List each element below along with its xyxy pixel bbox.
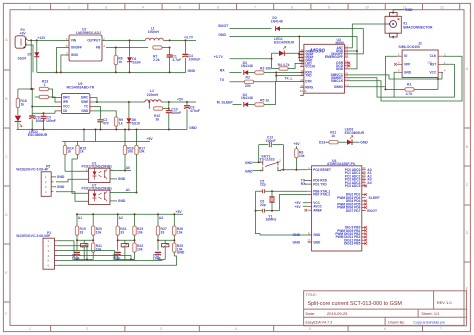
optocoupler U7 PC817 bottom [82, 184, 112, 205]
connector P4 [15, 28, 28, 48]
resistor R24 33 [116, 226, 119, 235]
svg-text:BOOT: BOOT [218, 24, 229, 28]
svg-text:VCCIO: VCCIO [305, 65, 316, 69]
mcu right pin stubs [362, 170, 366, 244]
svg-text:TXD: TXD [305, 74, 312, 78]
no-connect X DIG4..DIG6 [364, 200, 367, 203]
svg-text:GND: GND [189, 126, 197, 130]
wire SIMIO row [348, 56, 397, 89]
wire opto1 emitter gnd [110, 178, 117, 180]
svg-text:12: 12 [440, 5, 444, 9]
svg-text:M590: M590 [336, 41, 345, 45]
wire opto2 anode [72, 159, 89, 193]
svg-text:GND: GND [405, 8, 413, 12]
svg-text:+3.7V: +3.7V [214, 55, 224, 59]
no-connect X DIG2 [364, 193, 367, 196]
wire U2 ONOFF to gnd [57, 48, 70, 73]
capacitor C9 470uF [184, 101, 200, 130]
svg-text:3: 3 [105, 5, 107, 9]
svg-text:TS-1102S: TS-1102S [260, 158, 276, 162]
svg-text:470: 470 [103, 122, 109, 126]
svg-text:P4: P4 [345, 54, 349, 58]
svg-text:SIMIO: SIMIO [334, 85, 344, 89]
svg-text:1k: 1k [80, 150, 84, 154]
svg-text:GND: GND [71, 53, 79, 57]
svg-text:TITLE:: TITLE: [306, 293, 317, 297]
svg-text:GND: GND [293, 233, 301, 237]
M590 right pin names [325, 44, 350, 89]
svg-text:GND: GND [313, 233, 321, 237]
svg-text:SIMLOCK400: SIMLOCK400 [399, 45, 420, 49]
diode D3 1N4148 [230, 61, 255, 75]
wire SIMRST loop [348, 64, 454, 97]
crystal Y1 16MHz [266, 191, 277, 222]
svg-text:MC34063ABD-TR: MC34063ABD-TR [67, 86, 95, 90]
svg-text:ESCA005UR: ESCA005UR [274, 40, 295, 44]
node junction dots on +12V [30, 39, 32, 41]
svg-text:IPE: IPE [63, 100, 68, 104]
capacitor C11 10uF [115, 252, 121, 255]
svg-text:100nF: 100nF [171, 111, 181, 115]
resistor R26 10k [173, 226, 176, 235]
svg-text:SWC: SWC [81, 96, 89, 100]
resistor R21 10k [92, 243, 95, 252]
frame ruler numbers bottom [29, 327, 442, 331]
wire GND line to M590 [230, 37, 358, 69]
svg-text:P5: P5 [345, 65, 349, 69]
svg-text:GND: GND [313, 240, 321, 244]
wire M590 bottom gnd stub [300, 93, 303, 95]
svg-text:10uF: 10uF [72, 257, 80, 261]
svg-text:+5V: +5V [294, 142, 301, 146]
trimmer RV3 [162, 244, 169, 247]
svg-text:5: 5 [309, 327, 311, 331]
svg-text:TX_L: TX_L [284, 77, 292, 81]
wire VCC feed [31, 97, 33, 113]
svg-text:DRC: DRC [63, 96, 71, 100]
no-connect X ADC5 [364, 185, 367, 188]
svg-text:SS16: SS16 [132, 121, 140, 125]
resistor R10 3k feedback [148, 101, 169, 121]
svg-text:GND: GND [118, 199, 126, 203]
svg-text:5: 5 [179, 5, 181, 9]
svg-text:1N4148: 1N4148 [241, 96, 253, 100]
svg-text:WJ2EDGVC-5.08-4P: WJ2EDGVC-5.08-4P [16, 168, 49, 172]
svg-text:DIG7 PD7: DIG7 PD7 [346, 209, 361, 213]
wire U2 OUTPUT [102, 39, 145, 41]
svg-text:REV 1.0: REV 1.0 [437, 300, 453, 305]
frame ruler letters left [5, 38, 8, 316]
led LED3 with R11 [319, 128, 368, 145]
svg-text:100nF: 100nF [266, 139, 276, 143]
svg-text:PC6 RESET: PC6 RESET [313, 168, 331, 172]
wire sim gnd down [394, 72, 397, 97]
trimmer RV2 [121, 244, 128, 247]
svg-text:10k: 10k [299, 154, 305, 158]
svg-text:+5V: +5V [295, 205, 302, 209]
button KEY1 [253, 154, 281, 172]
wire opto2 cathode from P5 [56, 192, 89, 202]
mcu left pin names [308, 166, 331, 244]
no-connect X PB pins [364, 226, 367, 229]
wire XTAL2 riser [279, 195, 307, 211]
frame ruler ticks top [51, 3, 460, 9]
svg-text:RX: RX [220, 69, 225, 73]
svg-text:2: 2 [68, 5, 70, 9]
svg-text:PC5 ADC5: PC5 ADC5 [345, 184, 361, 188]
resistor R13 [18, 80, 49, 91]
svg-text:+5V: +5V [147, 137, 154, 141]
resistor R23 10k [133, 226, 136, 235]
mcu U4 ATMEGA328P-PU [312, 159, 362, 251]
network ch2 [113, 213, 144, 260]
svg-text:FB: FB [96, 46, 101, 50]
svg-text:8: 8 [291, 5, 293, 9]
resistor R19 33 [75, 226, 78, 235]
svg-text:GND: GND [336, 67, 344, 71]
svg-text:IO: IO [404, 54, 408, 58]
svg-text:220mH: 220mH [147, 93, 159, 97]
svg-text:ATMEGA328P-PU: ATMEGA328P-PU [327, 162, 356, 166]
svg-text:1: 1 [29, 5, 31, 9]
resistor R14 1k [63, 142, 73, 172]
resistor R2 200 [230, 73, 304, 88]
wire +12V feed down to R13 [30, 40, 32, 89]
wire SIMCLK loop [348, 56, 462, 101]
wire sma gnd [393, 10, 404, 13]
wire U2 FB [106, 47, 148, 49]
svg-text:4: 4 [235, 327, 237, 331]
resistor R5 1k [255, 82, 304, 107]
svg-text:10k: 10k [137, 230, 143, 234]
svg-text:3k: 3k [156, 117, 160, 121]
svg-text:1N4148: 1N4148 [271, 19, 283, 23]
capacitor C6 22p on XTAL2 [255, 200, 280, 213]
svg-text:GND: GND [245, 161, 253, 165]
svg-text:M_SLEEP: M_SLEEP [217, 101, 234, 105]
svg-text:4.7k: 4.7k [406, 92, 413, 96]
resistor R17 [32, 89, 48, 99]
M590 left pin names [300, 48, 316, 93]
svg-text:1k: 1k [119, 122, 123, 126]
svg-text:2.2k: 2.2k [153, 58, 160, 62]
svg-text:34-40: 34-40 [300, 89, 307, 93]
frame ruler numbers top [29, 5, 444, 9]
no-connect X VPP [394, 63, 397, 66]
svg-text:1k: 1k [266, 98, 270, 102]
resistor R15 1k [76, 142, 86, 160]
svg-text:A1: A1 [126, 188, 130, 192]
svg-text:A4: A4 [367, 181, 371, 185]
resistor R4 4.7k [272, 63, 304, 70]
inductor L2 220mH [145, 89, 161, 102]
reset wire [281, 169, 308, 171]
svg-text:EasyEDA V4.7.3: EasyEDA V4.7.3 [306, 320, 333, 324]
wire U2 GND to gnd [61, 55, 69, 72]
svg-text:7: 7 [254, 5, 256, 9]
wire opto1 anode [65, 170, 89, 172]
svg-text:WJ2EDGVC-5.08-06P: WJ2EDGVC-5.08-06P [16, 234, 51, 238]
svg-text:10uF: 10uF [153, 257, 161, 261]
svg-text:Copy.arduinolab.pw: Copy.arduinolab.pw [413, 320, 445, 324]
M590 left pin stubs [300, 52, 304, 88]
wire opto2 collector to A1 [110, 192, 131, 194]
svg-text:+3.7V: +3.7V [184, 35, 194, 39]
svg-text:RING: RING [305, 85, 313, 89]
resistor R1 4.7k [385, 78, 439, 96]
wire R17 to IPE [48, 97, 57, 102]
svg-text:SIMCLK: SIMCLK [331, 79, 344, 83]
svg-text:R1: R1 [407, 83, 411, 87]
wire L1 to output node [163, 39, 196, 41]
resistor R18 1k [16, 89, 27, 115]
svg-text:3: 3 [160, 327, 162, 331]
svg-text:22p: 22p [260, 203, 266, 207]
wire PD0 RX line [305, 180, 308, 182]
sma connector X1 [385, 12, 433, 38]
svg-text:100mH: 100mH [148, 30, 160, 34]
svg-text:2019-09-25: 2019-09-25 [327, 311, 348, 316]
network ch3 [153, 213, 185, 260]
svg-text:VPP: VPP [404, 62, 411, 66]
svg-text:6: 6 [384, 327, 386, 331]
resistor R27 33 [156, 226, 159, 235]
svg-text:PB7 XTAL2: PB7 XTAL2 [313, 193, 330, 197]
capacitor C7 10uF [74, 252, 80, 255]
wire gnd branch to left gnd pin [299, 37, 304, 52]
svg-text:GND: GND [118, 177, 126, 181]
diode D6 SS16 [126, 101, 140, 131]
svg-text:GND: GND [218, 33, 226, 37]
frame ruler letters right [466, 67, 469, 291]
resistor R3 10k [255, 66, 304, 74]
svg-text:1k: 1k [67, 150, 71, 154]
svg-text:6: 6 [217, 5, 219, 9]
svg-text:4: 4 [142, 5, 144, 9]
wire P5 pin3 gnd [54, 186, 57, 188]
svg-text:470uF: 470uF [190, 109, 200, 113]
svg-text:1k: 1k [20, 102, 24, 106]
resistor R17b 10k [135, 142, 145, 193]
svg-text:RX: RX [301, 182, 306, 186]
op U2 LM2596 regulator [66, 28, 105, 61]
connector P1 [16, 231, 57, 269]
module U3 M590 [304, 38, 345, 93]
svg-text:1: 1 [44, 83, 46, 87]
wire P1 pin4 [57, 256, 135, 260]
wire opto1 collector to A0 [110, 170, 131, 172]
svg-text:SLEEP: SLEEP [369, 196, 381, 200]
svg-text:1: 1 [29, 327, 31, 331]
svg-text:1k: 1k [118, 60, 122, 64]
svg-text:OUTPUT: OUTPUT [87, 39, 100, 43]
svg-text:PD1 TXD: PD1 TXD [313, 182, 327, 186]
capacitor C10 100nF [166, 101, 181, 131]
svg-text:Drawn By:: Drawn By: [388, 320, 405, 324]
wire vbat riser [271, 53, 273, 68]
svg-text:GND: GND [57, 185, 65, 189]
svg-text:BOOT: BOOT [367, 209, 378, 213]
network ch1 [72, 213, 102, 260]
svg-text:22p: 22p [260, 183, 266, 187]
svg-text:GND: GND [245, 169, 253, 173]
wire P1 pin2 [57, 246, 87, 260]
svg-text:100nF: 100nF [46, 119, 56, 123]
wire P5 pin1 gnd [54, 176, 57, 178]
inductor L1 100mH [145, 27, 163, 41]
svg-text:SS34: SS34 [132, 60, 140, 64]
wire L2 out [161, 101, 196, 103]
capacitor C2 470 on TC [94, 107, 109, 131]
svg-text:TC: TC [84, 105, 89, 109]
resistor R22 10k [133, 243, 136, 252]
diode D2 1N4148 [271, 16, 364, 54]
connector P5 [16, 165, 53, 197]
svg-text:10k: 10k [266, 66, 272, 70]
svg-text:F: F [5, 312, 7, 316]
svg-text:10k: 10k [139, 150, 145, 154]
wire SIMVCC to sim VCC [348, 72, 443, 79]
svg-text:GND: GND [57, 175, 65, 179]
svg-text:LM2596SX-ADJ: LM2596SX-ADJ [76, 31, 101, 35]
wire sma bottom stub [392, 37, 394, 39]
svg-text:GND: GND [177, 251, 185, 255]
capacitor C1 4.7uF [167, 39, 182, 73]
wire P1 pin3 [57, 251, 118, 260]
gnd rail block1 [37, 71, 186, 73]
resistor R8 10k pullup [295, 146, 305, 170]
svg-text:A2: A2 [119, 216, 123, 220]
svg-text:1000uF: 1000uF [189, 58, 201, 62]
wire ANT to SMA [348, 24, 385, 48]
svg-text:10k: 10k [137, 247, 143, 251]
svg-text:9: 9 [328, 5, 330, 9]
svg-text:A1: A1 [78, 216, 82, 220]
frame ruler ticks right [464, 128, 470, 262]
+5V top rail networks [77, 213, 183, 215]
IC U9 MC34063 [58, 82, 95, 113]
svg-text:100uF: 100uF [36, 119, 46, 123]
svg-text:CLK: CLK [430, 54, 437, 58]
frame ruler ticks bottom [51, 325, 423, 331]
resistor R20 10k [92, 226, 95, 235]
svg-text:GND: GND [293, 240, 301, 244]
wire PD1 TX line [305, 183, 308, 185]
svg-text:10k: 10k [127, 150, 133, 154]
resistor R6 1k [114, 47, 123, 74]
wire BOOT line [230, 28, 272, 30]
wire R13 to DRC [48, 89, 57, 98]
no-connect X DSR DCD [348, 62, 351, 65]
diode D4 1N4148 [233, 93, 255, 107]
svg-text:+5V: +5V [176, 210, 183, 214]
svg-text:VIN: VIN [71, 39, 77, 43]
gnd rail block2 [17, 129, 188, 131]
wire crystal gnd to mcu gnd [256, 191, 308, 235]
svg-text:R2: R2 [246, 75, 250, 79]
svg-text:TX: TX [220, 78, 225, 82]
svg-text:R5: R5 [260, 98, 264, 102]
wire SWE to L2 [94, 101, 145, 103]
resistor R9 1k [94, 111, 123, 131]
svg-text:200: 200 [245, 84, 251, 88]
capacitor C8 100uF [29, 113, 55, 130]
svg-text:SS34: SS34 [18, 57, 26, 61]
frame ruler ticks left [3, 70, 10, 302]
svg-text:DTR: DTR [305, 80, 312, 84]
svg-text:A0: A0 [126, 166, 130, 170]
M590 right pin stubs [344, 48, 348, 87]
svg-text:10k: 10k [96, 230, 102, 234]
capacitor C13 10uF [155, 252, 161, 255]
svg-text:1N4148: 1N4148 [241, 64, 253, 68]
wire P1 pin1 [57, 241, 77, 260]
svg-text:ESC0805UR: ESC0805UR [345, 131, 365, 135]
svg-text:VCC: VCC [63, 105, 70, 109]
svg-text:33: 33 [161, 230, 165, 234]
svg-text:33: 33 [80, 230, 84, 234]
svg-text:D5: D5 [28, 53, 32, 57]
svg-text:GND: GND [81, 109, 89, 113]
svg-text:4.7uF: 4.7uF [172, 58, 181, 62]
svg-text:33: 33 [120, 230, 124, 234]
svg-text:SWE: SWE [81, 100, 88, 104]
optocoupler U1 PC817 top [82, 162, 114, 183]
node mid wire [77, 239, 93, 241]
svg-text:DIG13 PB5: DIG13 PB5 [344, 242, 361, 246]
sim holder J2 SIMLOCK400 [397, 42, 446, 78]
capacitor C4 1000uF [182, 39, 200, 72]
trimmer RV1 [81, 244, 88, 247]
wire P4 pin1 down to gnd rail [28, 45, 34, 72]
svg-text:ONOFF: ONOFF [71, 46, 82, 50]
svg-text:SMACONNECTOR: SMACONNECTOR [403, 25, 433, 29]
wire opto2 emitter gnd [110, 200, 117, 202]
wire +12V P4 to U2 VIN [28, 39, 70, 41]
svg-text:16MHz: 16MHz [266, 218, 277, 222]
svg-text:R3: R3 [260, 66, 264, 70]
svg-text:AREF: AREF [313, 208, 322, 212]
svg-text:Date:: Date: [306, 311, 316, 316]
svg-text:10: 10 [365, 5, 369, 9]
svg-text:GND: GND [188, 69, 196, 73]
node stubs from gnd rail to 5V rail [83, 129, 138, 142]
svg-text:+9V: +9V [20, 32, 27, 36]
svg-text:Split-core current SCT-013-000: Split-core current SCT-013-000 to GSM [308, 301, 403, 307]
svg-text:GND: GND [404, 70, 412, 74]
svg-text:1k: 1k [331, 134, 335, 138]
led LED2 power indicator [15, 116, 48, 137]
svg-text:SIM: SIM [427, 61, 432, 65]
svg-text:2: 2 [86, 327, 88, 331]
resistor R25 10k [173, 243, 176, 252]
svg-text:10uF: 10uF [113, 257, 121, 261]
svg-text:A3: A3 [159, 216, 163, 220]
wire SWC joins SWE [94, 98, 97, 102]
resistor R7 2.2k [153, 46, 170, 62]
wire P1 pin6 [57, 256, 177, 265]
capacitor C12 100nF debounce [259, 136, 284, 170]
svg-text:GND: GND [360, 140, 368, 144]
svg-text:10k: 10k [177, 230, 183, 234]
wire 3.7V rail [230, 58, 272, 60]
svg-text:ESC0805UR: ESC0805UR [28, 133, 48, 137]
svg-text:VCC: VCC [429, 70, 436, 74]
svg-text:D13: D13 [319, 141, 325, 145]
svg-text:7: 7 [440, 327, 442, 331]
led LED1 power [272, 37, 304, 61]
capacitor C5 22p on XTAL1 [256, 179, 308, 193]
